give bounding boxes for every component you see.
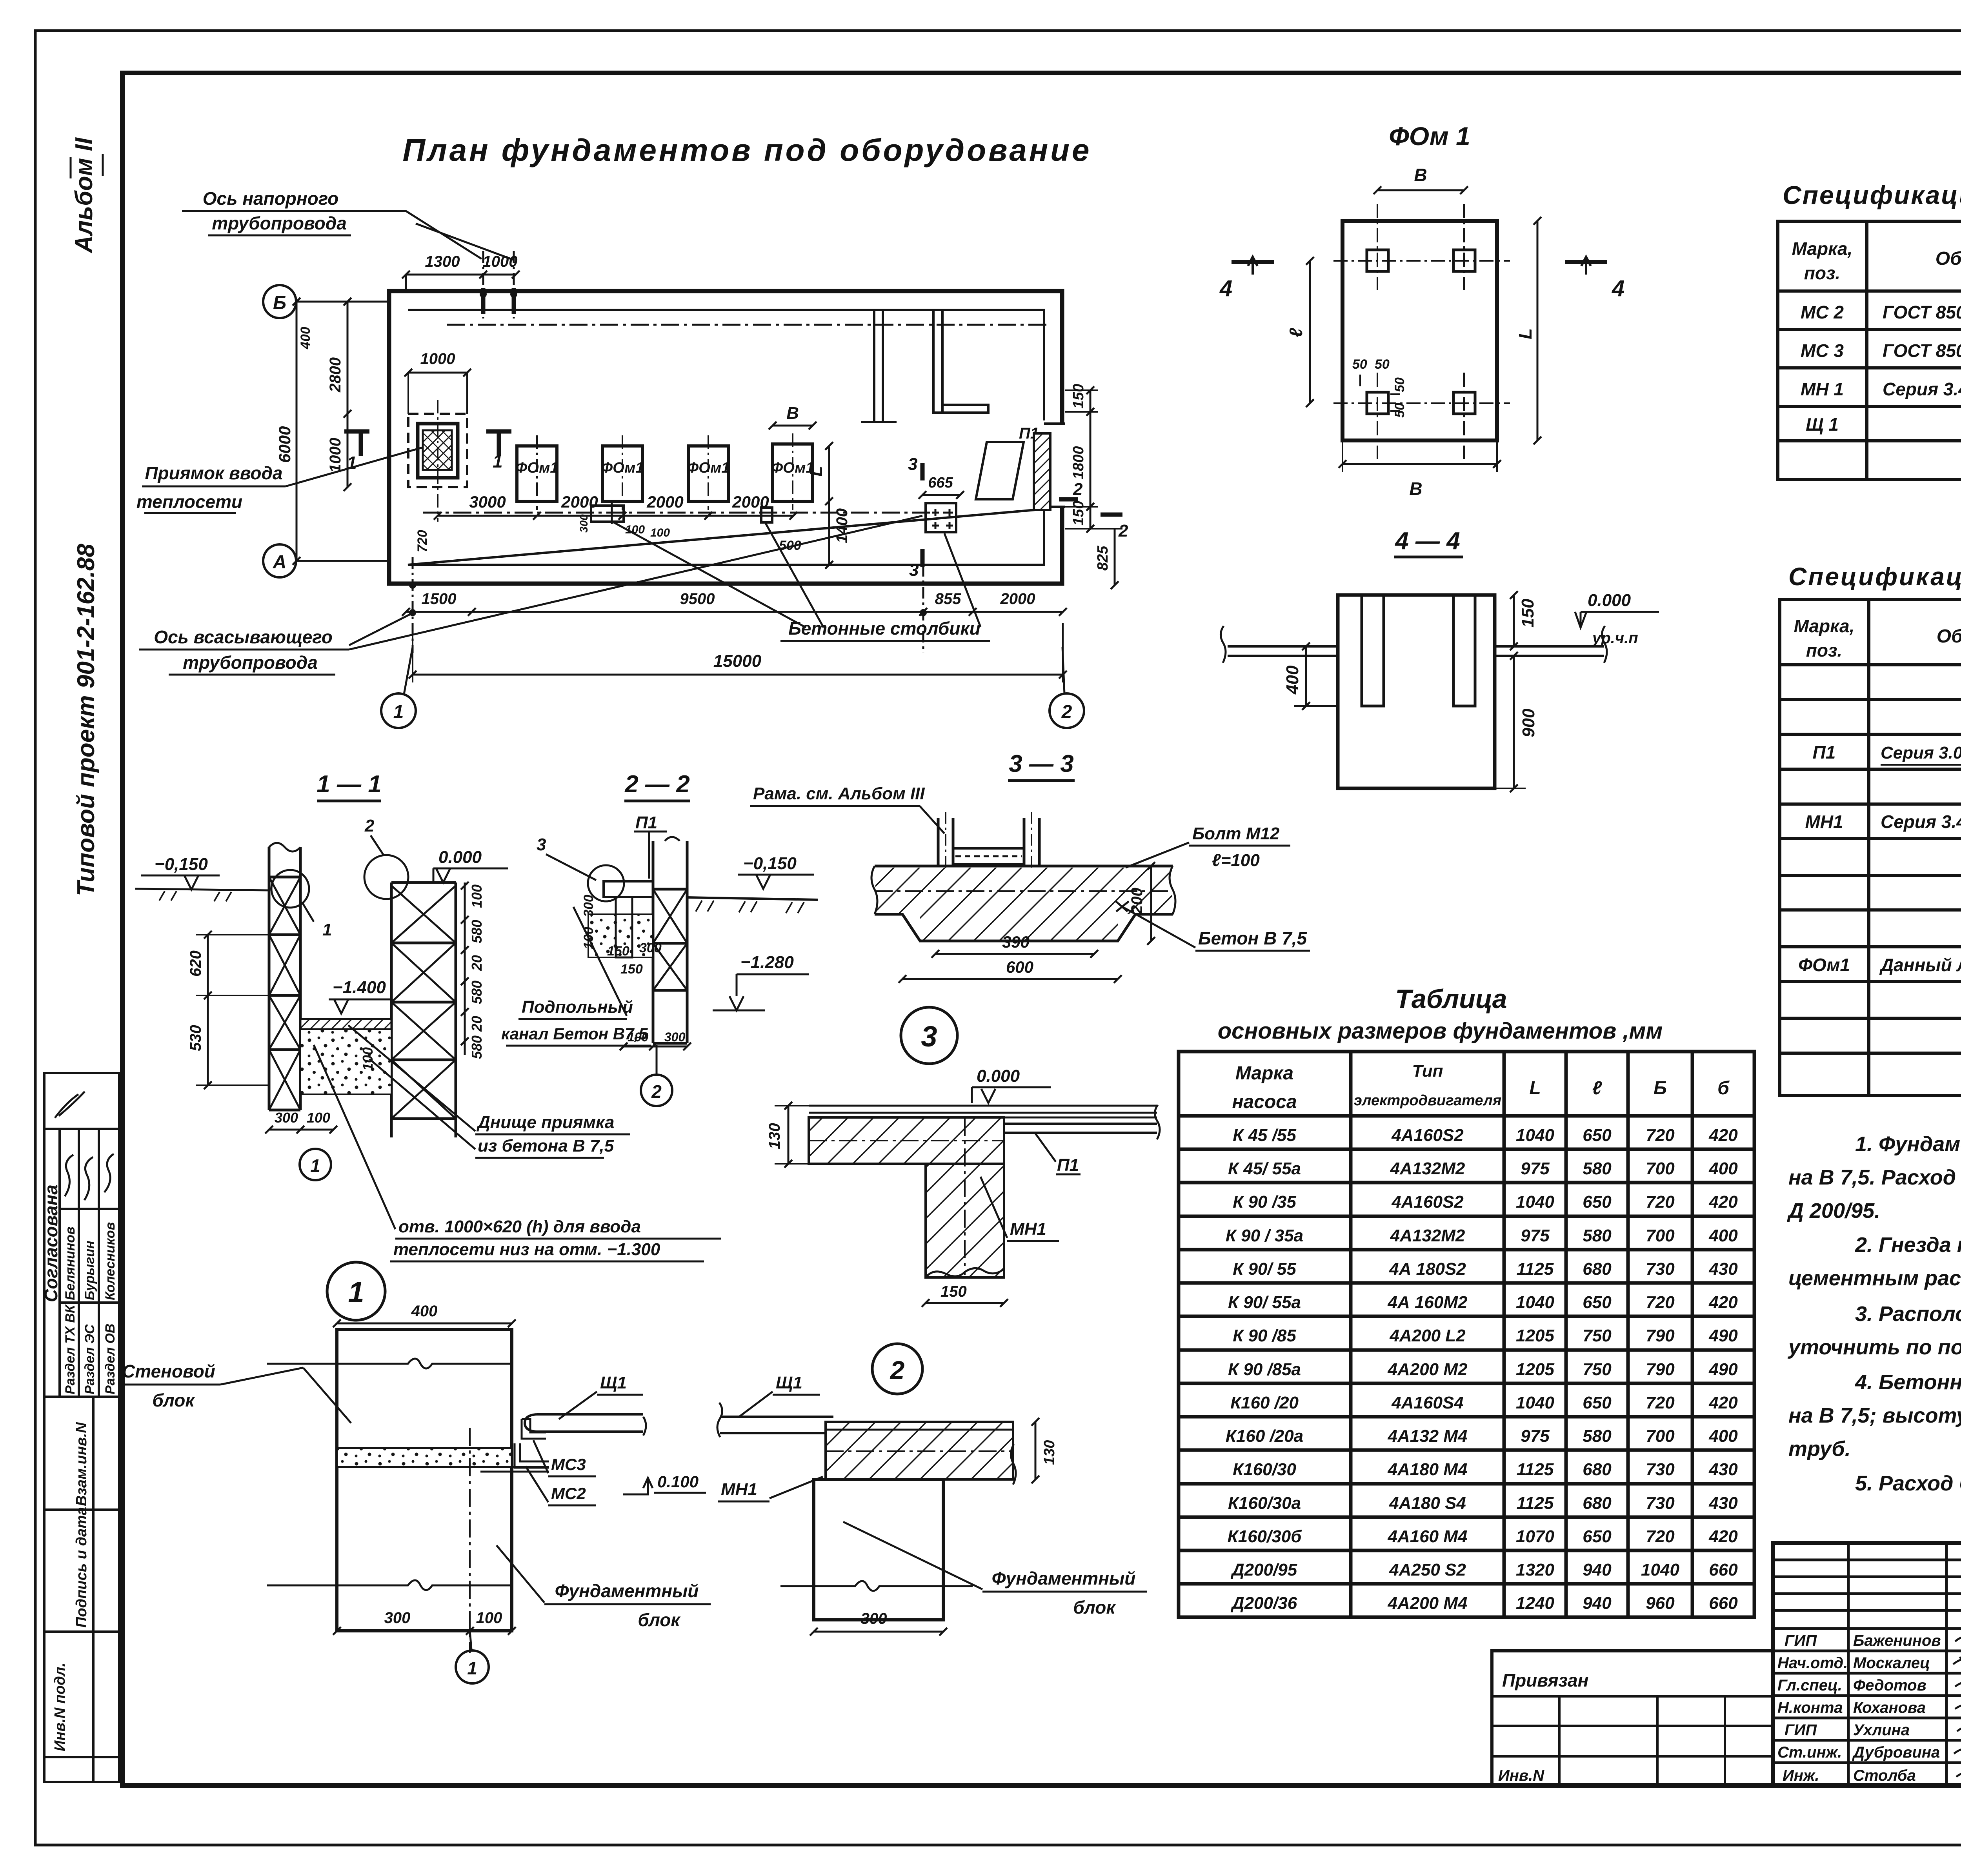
svg-text:1205: 1205 — [1516, 1326, 1554, 1345]
bottom dim row 1500/9500/855/2000 — [406, 611, 1063, 613]
svg-text:1: 1 — [310, 1155, 320, 1176]
svg-text:9500: 9500 — [680, 590, 715, 608]
dim 150 right — [1513, 595, 1515, 646]
svg-text:580: 580 — [1583, 1427, 1612, 1446]
svg-text:300: 300 — [384, 1609, 411, 1627]
svg-text:50: 50 — [1352, 357, 1367, 372]
grid circle Б — [263, 285, 296, 318]
svg-text:Инв.N подл.: Инв.N подл. — [52, 1663, 68, 1751]
svg-text:825: 825 — [1095, 546, 1111, 571]
svg-text:300: 300 — [581, 895, 596, 917]
svg-text:420: 420 — [1708, 1527, 1738, 1546]
svg-text:цементным раствором.: цементным раствором. — [1788, 1266, 1961, 1290]
svg-text:900: 900 — [1519, 708, 1538, 737]
svg-text:1040: 1040 — [1516, 1393, 1554, 1412]
svg-text:4А132М2: 4А132М2 — [1390, 1226, 1465, 1245]
detail 2: Щ1 cover plate — [720, 1417, 833, 1433]
svg-text:665: 665 — [928, 475, 953, 491]
svg-text:650: 650 — [1583, 1192, 1612, 1212]
svg-text:975: 975 — [1521, 1427, 1550, 1446]
foundation block ФОм1 #2 — [602, 446, 642, 501]
svg-text:ФОм1: ФОм1 — [1798, 955, 1850, 975]
svg-text:2: 2 — [890, 1356, 905, 1385]
dim L and 1400 right of block 4 — [828, 446, 830, 565]
svg-text:Ст.инж.: Ст.инж. — [1777, 1744, 1842, 1761]
svg-text:В: В — [1409, 479, 1422, 499]
svg-text:1125: 1125 — [1517, 1460, 1554, 1479]
bottom dim 15000 — [413, 674, 1063, 676]
svg-text:К 45/ 55а: К 45/ 55а — [1228, 1159, 1301, 1178]
svg-text:1 — 1: 1 — 1 — [317, 771, 381, 798]
svg-text:Таблица: Таблица — [1395, 984, 1507, 1014]
dim 900 right — [1513, 656, 1515, 788]
svg-text:975: 975 — [1521, 1159, 1550, 1178]
dim 665 over post C — [922, 494, 960, 496]
svg-text:1040: 1040 — [1516, 1192, 1554, 1212]
svg-text:4. Бетонные столбики под: 4. Бетонные столбики под трубы выполнить… — [1855, 1370, 1961, 1394]
svg-text:Спецификация металлических изд: Спецификация металлических изделий к схе… — [1783, 180, 1961, 209]
svg-text:660: 660 — [1709, 1594, 1738, 1613]
rotated text Альбом II (top left margin) — [71, 137, 98, 254]
svg-text:Серия 3.006.1-2/82, В.1-2: Серия 3.006.1-2/82, В.1-2 — [1881, 743, 1961, 762]
spec table 2 grid — [1780, 599, 1961, 1095]
hatched wall piece at door — [1034, 433, 1050, 510]
svg-text:Щ 1: Щ 1 — [1806, 414, 1839, 435]
hole axes dash-dot — [1377, 204, 1378, 290]
svg-text:Федотов: Федотов — [1853, 1677, 1926, 1694]
pump table rows — [1226, 1126, 1738, 1613]
2-2 ground line and soil hatch — [687, 897, 818, 900]
section 1-1 cut marks through pit — [344, 431, 369, 456]
svg-text:400: 400 — [411, 1303, 438, 1320]
detail 2: bottom dim 300 — [814, 1631, 943, 1633]
anchor slot left — [1362, 595, 1384, 706]
svg-text:ℓ: ℓ — [1286, 328, 1306, 337]
section 4 cut mark left — [1232, 260, 1274, 264]
svg-text:1: 1 — [393, 702, 404, 722]
svg-text:720: 720 — [415, 530, 430, 552]
svg-text:680: 680 — [1583, 1494, 1612, 1513]
svg-text:МН1: МН1 — [1010, 1219, 1046, 1239]
svg-text:Белянинов: Белянинов — [63, 1226, 78, 1300]
svg-text:420: 420 — [1708, 1293, 1738, 1312]
svg-text:П1: П1 — [1813, 742, 1836, 762]
building inner wall line — [408, 310, 1044, 565]
section 2-2 cut marks — [1059, 497, 1078, 502]
svg-text:4А160S2: 4А160S2 — [1391, 1192, 1464, 1212]
foundation block ФОм1 #1 — [517, 446, 557, 501]
door opening right wall — [1042, 424, 1065, 507]
svg-text:К160/30б: К160/30б — [1228, 1527, 1302, 1546]
svg-text:насоса: насоса — [1232, 1092, 1297, 1112]
svg-text:Стеновой: Стеновой — [122, 1361, 215, 1381]
svg-text:720: 720 — [1646, 1527, 1675, 1546]
svg-text:1125: 1125 — [1517, 1259, 1554, 1279]
svg-text:730: 730 — [1646, 1494, 1675, 1513]
svg-text:1040: 1040 — [1516, 1126, 1554, 1145]
svg-text:В: В — [786, 404, 799, 423]
svg-text:3: 3 — [537, 835, 546, 854]
1-1 section bubble 1 — [300, 1149, 331, 1180]
svg-text:4А160 М4: 4А160 М4 — [1387, 1527, 1467, 1546]
svg-text:150: 150 — [1518, 599, 1537, 628]
svg-text:теплосети низ на отм. −1.30: теплосети низ на отм. −1.300 — [393, 1240, 660, 1259]
svg-text:0.100: 0.100 — [657, 1472, 699, 1491]
2-2 bottom dims 190 300 — [624, 1046, 687, 1048]
detail 3: П1 plate right — [1004, 1124, 1157, 1133]
top dims 1300 / 1000 — [406, 274, 516, 276]
svg-text:МС 3: МС 3 — [1801, 340, 1844, 361]
mini detail: МС2 angle — [515, 1443, 549, 1468]
suction pipe axis (dash-dot along bottom) — [423, 512, 952, 514]
svg-text:650: 650 — [1583, 1293, 1612, 1312]
svg-text:0.000: 0.000 — [1588, 591, 1631, 610]
svg-text:теплосети: теплосети — [136, 491, 242, 512]
svg-text:3 — 3: 3 — 3 — [1009, 750, 1073, 777]
mini detail: elevation 0.100 — [623, 1478, 653, 1494]
svg-text:1040: 1040 — [1641, 1560, 1679, 1579]
svg-text:1070: 1070 — [1516, 1527, 1554, 1546]
svg-text:Типовой проект 901-2-162.88: Типовой проект 901-2-162.88 — [73, 544, 100, 896]
svg-text:К 90 /85а: К 90 /85а — [1228, 1360, 1301, 1379]
rotated text Типовой проект 901-2-162.88 (left margin) — [73, 544, 100, 896]
svg-text:Б: Б — [273, 293, 286, 313]
svg-text:300: 300 — [639, 941, 662, 955]
svg-text:−1.280: −1.280 — [740, 953, 794, 972]
svg-text:15000: 15000 — [713, 651, 762, 671]
svg-text:300: 300 — [275, 1110, 298, 1126]
svg-text:790: 790 — [1646, 1360, 1675, 1379]
signatures squiggles — [1953, 1634, 1961, 1777]
concrete post C with anchor bolts — [926, 503, 956, 532]
detail 3: floor slab double line — [809, 1106, 1157, 1117]
svg-text:Подпольный: Подпольный — [522, 997, 633, 1017]
svg-text:МН1: МН1 — [721, 1480, 757, 1499]
dim L right — [1537, 221, 1539, 440]
1-1 lean concrete dotted — [300, 1029, 391, 1094]
svg-text:ГОСТ 8509-86: ГОСТ 8509-86 — [1883, 340, 1961, 361]
svg-text:−1.400: −1.400 — [333, 978, 386, 997]
svg-text:400: 400 — [1708, 1159, 1738, 1178]
svg-text:3000: 3000 — [469, 493, 506, 511]
svg-text:План фундаментов под оборудов: План фундаментов под оборудование — [402, 133, 1091, 167]
svg-text:Согласована: Согласована — [41, 1185, 61, 1302]
svg-text:400: 400 — [1283, 665, 1302, 695]
svg-text:3. Расположение отверстий: 3. Расположение отверстий под фундаментн… — [1855, 1302, 1961, 1326]
svg-text:ℓ=100: ℓ=100 — [1212, 851, 1260, 870]
svg-text:Коханова: Коханова — [1853, 1699, 1926, 1716]
svg-text:на В 7,5. Расход бетона по: на В 7,5. Расход бетона под ФОм1 дан для… — [1788, 1166, 1961, 1189]
svg-text:0.000: 0.000 — [438, 848, 482, 867]
svg-text:1: 1 — [322, 920, 332, 939]
svg-text:1205: 1205 — [1516, 1360, 1554, 1379]
svg-text:420: 420 — [1708, 1192, 1738, 1212]
svg-text:6000: 6000 — [275, 426, 294, 463]
svg-text:4А 160М2: 4А 160М2 — [1387, 1293, 1468, 1312]
1-1 pit floor slab — [300, 1019, 391, 1029]
mini detail: МС3 angle — [522, 1419, 546, 1439]
svg-text:Обозначение: Обозначение — [1936, 248, 1961, 269]
svg-text:К 90/ 55а: К 90/ 55а — [1228, 1293, 1301, 1312]
title block outer — [1773, 1543, 1961, 1785]
svg-text:Ось напорного: Ось напорного — [203, 188, 339, 209]
svg-text:Серия 3.400-6/76: Серия 3.400-6/76 — [1883, 379, 1961, 399]
svg-text:490: 490 — [1708, 1360, 1738, 1379]
svg-text:4: 4 — [1612, 276, 1624, 301]
svg-text:Взам.инв.N: Взам.инв.N — [73, 1422, 90, 1506]
svg-text:1300: 1300 — [425, 253, 460, 270]
svg-text:Ухлина: Ухлина — [1853, 1721, 1910, 1739]
signatures squiggles in approval strip — [65, 1155, 73, 1196]
svg-text:на В 7,5; высоту их уто: на В 7,5; высоту их уточнить по месту пр… — [1788, 1404, 1961, 1427]
svg-text:4А200 М4: 4А200 М4 — [1387, 1594, 1467, 1613]
svg-text:400: 400 — [1708, 1427, 1738, 1446]
svg-text:130: 130 — [766, 1123, 783, 1149]
svg-text:блок: блок — [152, 1390, 195, 1410]
svg-text:L: L — [807, 466, 826, 477]
svg-text:Марка: Марка — [1235, 1063, 1293, 1084]
svg-text:К160/30: К160/30 — [1233, 1460, 1296, 1479]
dim ℓ left — [1309, 261, 1311, 403]
right side dim chain 150/1800/150 — [1090, 390, 1091, 529]
svg-text:580: 580 — [469, 981, 485, 1004]
svg-text:580: 580 — [469, 920, 485, 943]
svg-text:580: 580 — [469, 1035, 485, 1059]
svg-text:К 45 /55: К 45 /55 — [1233, 1126, 1296, 1145]
svg-text:П1: П1 — [635, 813, 657, 832]
svg-text:Д200/36: Д200/36 — [1230, 1594, 1297, 1613]
svg-text:Подпись и дата: Подпись и дата — [73, 1507, 90, 1628]
svg-text:700: 700 — [1646, 1159, 1675, 1178]
svg-text:К160/30а: К160/30а — [1228, 1494, 1301, 1513]
3-3 dims 390 600 — [935, 953, 1094, 955]
svg-text:Данный лист: Данный лист — [1879, 955, 1961, 975]
detail 1: mortar joint dotted — [337, 1448, 512, 1467]
svg-text:Баженинов: Баженинов — [1853, 1632, 1941, 1649]
svg-text:680: 680 — [1583, 1460, 1612, 1479]
ФОм1 foundation plate — [1343, 221, 1497, 440]
anchor hole bottom-left — [1367, 392, 1388, 414]
foundation block ФОм1 #3 — [688, 446, 728, 501]
svg-text:Нач.отд.: Нач.отд. — [1777, 1654, 1848, 1672]
svg-text:Бетон В 7,5: Бетон В 7,5 — [1198, 928, 1307, 948]
svg-text:650: 650 — [1583, 1393, 1612, 1412]
svg-text:100: 100 — [360, 1047, 376, 1071]
svg-text:940: 940 — [1583, 1594, 1612, 1613]
svg-text:МС2: МС2 — [551, 1484, 586, 1503]
anchor slot right — [1453, 595, 1475, 706]
partition wall 1 — [874, 310, 883, 422]
svg-text:100: 100 — [476, 1609, 502, 1627]
svg-text:940: 940 — [1583, 1560, 1612, 1579]
svg-text:430: 430 — [1708, 1460, 1738, 1479]
1-1 left wall column (blocks with X) — [269, 847, 300, 1110]
dim chain 2800 / 1000 — [347, 302, 349, 487]
section 4 cut mark right — [1565, 260, 1607, 264]
svg-text:3: 3 — [908, 455, 917, 474]
svg-text:Столба: Столба — [1853, 1767, 1916, 1784]
svg-text:Дубровина: Дубровина — [1852, 1744, 1940, 1761]
svg-text:Колесников: Колесников — [103, 1222, 118, 1300]
section 3-3 cut marks — [920, 463, 925, 480]
svg-text:блок: блок — [638, 1610, 681, 1630]
detail 3: hatched wall flange — [809, 1117, 1004, 1164]
title block grid — [1773, 1543, 1961, 1785]
floor slab left — [1228, 646, 1338, 656]
svg-text:Москалец: Москалец — [1853, 1654, 1930, 1672]
svg-text:Фундаментный: Фундаментный — [555, 1581, 699, 1601]
spec table 1 grid — [1778, 221, 1961, 480]
svg-text:основных размеров фундаментов: основных размеров фундаментов ,мм — [1218, 1018, 1663, 1044]
detail 1: section bubble 1 — [470, 1631, 471, 1650]
svg-text:Инж.: Инж. — [1783, 1767, 1819, 1784]
svg-text:20: 20 — [469, 955, 485, 971]
svg-text:Обозначение: Обозначение — [1937, 626, 1961, 647]
svg-text:А: А — [273, 552, 287, 573]
svg-text:Днище приямка: Днище приямка — [476, 1113, 614, 1132]
svg-text:ℓ: ℓ — [1592, 1078, 1602, 1099]
svg-text:300: 300 — [861, 1610, 887, 1627]
svg-text:МС 2: МС 2 — [1801, 302, 1844, 322]
partition wall 2 — [933, 310, 942, 413]
dim 825 — [1114, 529, 1116, 585]
svg-text:2 — 2: 2 — 2 — [624, 771, 689, 798]
foundation block ФОм1 #4 — [773, 444, 813, 501]
svg-text:490: 490 — [1708, 1326, 1738, 1345]
svg-text:5. Расход бетона В 7,5 на:: 5. Расход бетона В 7,5 на: днище приямка… — [1855, 1472, 1961, 1495]
svg-text:Тип: Тип — [1412, 1061, 1443, 1081]
svg-text:уточнить по поставленному: уточнить по поставленному оборудованию. — [1787, 1336, 1961, 1359]
mini detail: Щ1 cover plate over pit edge — [525, 1414, 643, 1432]
concrete post B — [761, 508, 772, 522]
dim В top — [1377, 189, 1464, 191]
svg-text:поз.: поз. — [1806, 640, 1842, 661]
1-1 right dim chain 100/580/20/580/20/580 — [464, 883, 466, 1055]
svg-text:ФОм 1: ФОм 1 — [1389, 122, 1470, 151]
svg-text:Фундаментный: Фундаментный — [992, 1568, 1136, 1589]
plate П1 in plan — [976, 442, 1024, 499]
svg-text:530: 530 — [187, 1025, 204, 1051]
interior dim row 3000/2000/2000/2000 — [438, 515, 793, 517]
svg-text:1: 1 — [493, 451, 503, 471]
svg-text:канал Бетон В7,5: канал Бетон В7,5 — [501, 1024, 648, 1043]
svg-text:4А132М2: 4А132М2 — [1390, 1159, 1465, 1178]
svg-text:4А200 М2: 4А200 М2 — [1387, 1360, 1468, 1379]
1-1 callout 2 with circle — [364, 855, 408, 899]
svg-text:720: 720 — [1646, 1393, 1675, 1412]
svg-text:300: 300 — [664, 1030, 686, 1044]
svg-text:ГИП: ГИП — [1785, 1632, 1817, 1649]
svg-text:960: 960 — [1646, 1594, 1675, 1613]
svg-text:поз.: поз. — [1804, 263, 1840, 283]
svg-text:750: 750 — [1583, 1360, 1612, 1379]
svg-text:К160 /20: К160 /20 — [1230, 1393, 1299, 1412]
svg-text:блок: блок — [1073, 1597, 1116, 1618]
svg-text:Раздел ОВ: Раздел ОВ — [103, 1324, 118, 1394]
svg-text:4А250 S2: 4А250 S2 — [1389, 1560, 1466, 1579]
svg-text:2000: 2000 — [561, 493, 598, 511]
svg-text:650: 650 — [1583, 1527, 1612, 1546]
detail 1: dim 400 — [337, 1323, 512, 1325]
foundation body section — [1338, 595, 1495, 788]
detail 1: МС2 horizontal angle leg — [480, 1467, 549, 1472]
svg-text:200: 200 — [1128, 888, 1146, 914]
2-2 section bubble 2 — [656, 1045, 658, 1074]
3-3 frame posts — [938, 818, 1039, 866]
heat inlet pit (приямок) — [408, 414, 467, 487]
svg-text:975: 975 — [1521, 1226, 1550, 1245]
svg-text:1: 1 — [348, 1276, 364, 1308]
anchor hole top-left — [1367, 250, 1388, 271]
detail 2: big circle 2 — [872, 1344, 922, 1394]
left attribute strip: lower boxes (Взам.инв.N / Подпись и дата / Инв.N подл.) — [44, 1397, 119, 1782]
svg-text:К 90 / 35а: К 90 / 35а — [1226, 1226, 1303, 1245]
detail 2: hatched slab П1 — [826, 1422, 1013, 1479]
dim В bottom — [1343, 463, 1497, 465]
detail 3: bottom dim 150 — [926, 1302, 1004, 1304]
svg-text:20: 20 — [469, 1016, 485, 1032]
3-3 dim 200 — [1150, 866, 1152, 941]
svg-text:100: 100 — [307, 1110, 330, 1126]
svg-text:650: 650 — [1583, 1126, 1612, 1145]
svg-text:2. Гнезда после установки: 2. Гнезда после установки анкерных болто… — [1855, 1233, 1961, 1257]
svg-text:300: 300 — [578, 514, 590, 533]
svg-text:50: 50 — [1375, 357, 1390, 372]
svg-text:Рама. см. Альбом III: Рама. см. Альбом III — [753, 784, 925, 803]
svg-text:В: В — [1414, 165, 1427, 185]
svg-text:трубопровода: трубопровода — [212, 213, 347, 233]
detail 1: bottom dims 300 100 — [337, 1630, 512, 1632]
svg-text:из бетона В 7,5: из бетона В 7,5 — [478, 1136, 614, 1155]
svg-text:700: 700 — [1646, 1427, 1675, 1446]
svg-text:Д 200/95.: Д 200/95. — [1787, 1199, 1880, 1223]
pump table grid — [1179, 1052, 1754, 1617]
svg-text:L: L — [1529, 1078, 1541, 1099]
svg-text:855: 855 — [935, 590, 961, 608]
svg-text:ГОСТ 8509-86: ГОСТ 8509-86 — [1883, 302, 1961, 322]
anchor hole top-right — [1453, 250, 1475, 271]
svg-text:750: 750 — [1583, 1326, 1612, 1345]
2-2 П1 slab plate — [604, 881, 653, 897]
svg-text:2800: 2800 — [327, 357, 344, 393]
svg-text:К 90/ 55: К 90/ 55 — [1233, 1259, 1296, 1279]
svg-text:150: 150 — [1070, 384, 1087, 409]
floor slab right — [1495, 646, 1604, 656]
svg-text:П1: П1 — [1057, 1155, 1079, 1175]
svg-text:L: L — [1515, 328, 1535, 339]
2-2 underfloor channel concrete — [588, 914, 653, 957]
svg-text:150: 150 — [1070, 501, 1087, 526]
svg-text:680: 680 — [1583, 1259, 1612, 1279]
left attribute strip: approval table — [44, 1073, 119, 1397]
svg-text:1000: 1000 — [327, 438, 344, 473]
svg-text:100: 100 — [469, 884, 485, 908]
svg-text:труб.: труб. — [1788, 1437, 1851, 1461]
detail 1: wall block — [337, 1330, 512, 1631]
svg-text:50: 50 — [1392, 377, 1407, 392]
svg-text:0.000: 0.000 — [977, 1066, 1020, 1086]
svg-text:2000: 2000 — [732, 493, 769, 511]
detail 3: hatched stem — [926, 1164, 1004, 1277]
3-3 slab with hatch — [875, 865, 1173, 868]
svg-text:790: 790 — [1646, 1326, 1675, 1345]
svg-text:1125: 1125 — [1517, 1494, 1554, 1513]
pressure pipe axis (dash-dot along top wall) — [447, 324, 1046, 326]
svg-text:720: 720 — [1646, 1192, 1675, 1212]
svg-text:Инв.N: Инв.N — [1498, 1767, 1544, 1784]
svg-text:Щ1: Щ1 — [600, 1373, 627, 1392]
svg-text:400: 400 — [1708, 1226, 1738, 1245]
